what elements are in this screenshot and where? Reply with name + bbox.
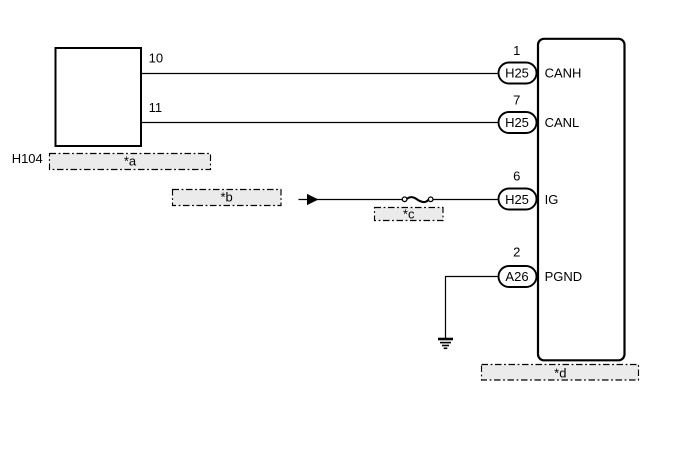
svg-text:*b: *b (220, 190, 232, 205)
svg-text:H104: H104 (12, 151, 43, 166)
svg-text:CANH: CANH (545, 66, 582, 81)
svg-text:1: 1 (513, 43, 520, 58)
svg-text:PGND: PGND (545, 269, 583, 284)
svg-text:IG: IG (545, 192, 559, 207)
svg-text:H25: H25 (505, 66, 529, 81)
svg-text:CANL: CANL (545, 115, 580, 130)
svg-text:6: 6 (513, 168, 520, 183)
svg-text:A26: A26 (505, 269, 528, 284)
svg-text:*c: *c (403, 207, 415, 222)
svg-text:*d: *d (554, 366, 566, 381)
svg-text:H25: H25 (505, 192, 529, 207)
svg-text:H25: H25 (505, 115, 529, 130)
svg-text:10: 10 (149, 51, 163, 66)
svg-text:7: 7 (513, 93, 520, 108)
svg-text:2: 2 (513, 244, 520, 259)
svg-text:*a: *a (124, 153, 137, 168)
svg-text:11: 11 (149, 100, 163, 115)
